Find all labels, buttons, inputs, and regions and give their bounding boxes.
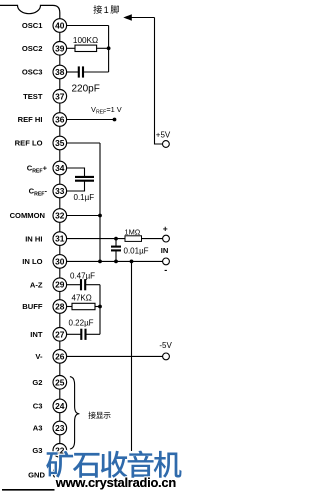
- capacitor Cint 0.22µF: [67, 329, 100, 340]
- svg-text:OSC3: OSC3: [22, 68, 43, 77]
- svg-text:47KΩ: 47KΩ: [72, 294, 92, 303]
- svg-text:0.47µF: 0.47µF: [70, 272, 95, 281]
- IN- terminal: [163, 258, 170, 265]
- svg-text:IN HI: IN HI: [25, 234, 42, 243]
- svg-text:35: 35: [55, 138, 65, 148]
- svg-text:G2: G2: [32, 378, 42, 387]
- IN+ terminal: [163, 235, 170, 242]
- svg-text:REF HI: REF HI: [18, 115, 43, 124]
- capacitor Caz 0.47µF: [67, 279, 100, 290]
- junction dot C2 bottom: [114, 260, 118, 264]
- note 接1脚 (to pin 1): [93, 5, 118, 15]
- svg-text:IN LO: IN LO: [22, 257, 42, 266]
- svg-text:IN: IN: [161, 246, 169, 255]
- svg-text:0.1µF: 0.1µF: [74, 193, 95, 202]
- pin circles 40..21: [53, 19, 67, 457]
- svg-text:34: 34: [55, 163, 65, 173]
- wire IN LO: [67, 260, 163, 262]
- svg-text:29: 29: [55, 280, 65, 290]
- note 接显示 (to display): [88, 412, 110, 419]
- svg-text:1: 1: [104, 5, 109, 15]
- wire REF HI to Vref node: [67, 119, 115, 121]
- svg-text:25: 25: [55, 377, 65, 387]
- svg-text:220pF: 220pF: [72, 84, 100, 95]
- ground return wire IN LO to GND pin: [131, 261, 133, 451]
- wire pin40 OSC1 to oscillator bus: [67, 25, 109, 27]
- svg-text:A3: A3: [33, 424, 43, 433]
- svg-text:26: 26: [55, 351, 65, 361]
- svg-text:33: 33: [55, 186, 65, 196]
- capacitor C1 220pF: [67, 66, 109, 77]
- +5V terminal: [163, 141, 170, 148]
- resistor R3 47KΩ: [67, 303, 100, 309]
- svg-text:0.22µF: 0.22µF: [69, 318, 94, 327]
- junction dot ground line/IN LO: [130, 260, 134, 264]
- svg-text:G3: G3: [32, 446, 42, 455]
- svg-text:0.01µF: 0.01µF: [124, 246, 149, 255]
- wire V- to -5V: [67, 355, 163, 357]
- svg-text:1MΩ: 1MΩ: [125, 228, 141, 237]
- svg-text:23: 23: [55, 423, 65, 433]
- svg-text:36: 36: [55, 115, 65, 125]
- junction dot COMMON/bus: [98, 214, 102, 218]
- wire REF LO: [67, 142, 100, 144]
- svg-text:OSC2: OSC2: [22, 44, 43, 53]
- resistor R2 1MΩ: [125, 236, 142, 242]
- svg-text:27: 27: [55, 329, 65, 339]
- IC body top edge with pin-1 notch: [0, 5, 60, 18]
- svg-text:BUFF: BUFF: [22, 302, 43, 311]
- svg-text:TEST: TEST: [23, 92, 43, 101]
- svg-text:GND: GND: [28, 471, 45, 480]
- svg-text:REF LO: REF LO: [15, 139, 43, 148]
- svg-text:OSC1: OSC1: [22, 21, 43, 30]
- svg-text:31: 31: [55, 234, 65, 244]
- svg-text:COMMON: COMMON: [10, 211, 45, 220]
- svg-text:-5V: -5V: [159, 341, 172, 350]
- watermark underline: [2, 489, 55, 491]
- svg-text:28: 28: [55, 302, 65, 312]
- svg-text:37: 37: [55, 91, 65, 101]
- wire COMMON: [67, 215, 100, 217]
- svg-text:V-: V-: [35, 352, 43, 361]
- svg-text:38: 38: [55, 67, 65, 77]
- svg-text:39: 39: [55, 43, 65, 53]
- wire 1MΩ to IN+ terminal: [142, 238, 163, 240]
- svg-text:-: -: [164, 265, 167, 275]
- capacitor Cref 0.1µF leads: [67, 168, 85, 176]
- pin 21 circle left arc (rest hidden by watermark): [53, 467, 56, 477]
- svg-text:INT: INT: [30, 330, 43, 339]
- svg-text:30: 30: [55, 256, 65, 266]
- IC pin chain connecting segments: [59, 32, 61, 443]
- resistor R1 100KΩ: [67, 45, 109, 51]
- capacitor C2 0.01µF: [111, 239, 121, 262]
- +5V supply wire: [155, 18, 163, 145]
- watermark text 矿石收音机: [46, 451, 181, 478]
- svg-text:www.crystalradio.cn: www.crystalradio.cn: [55, 475, 177, 490]
- svg-text:C3: C3: [33, 402, 43, 411]
- display pins brace: [70, 377, 80, 449]
- capacitor Cref 0.1µF plates: [75, 176, 94, 178]
- svg-text:A-Z: A-Z: [30, 280, 43, 289]
- svg-text:40: 40: [55, 21, 65, 31]
- svg-text:+: +: [163, 224, 168, 234]
- svg-text:+5V: +5V: [156, 131, 171, 140]
- -5V terminal: [163, 353, 170, 360]
- junction dot R3/bus: [98, 305, 102, 309]
- junction dot C2 top: [114, 237, 118, 241]
- integrator node bus wire: [99, 285, 101, 335]
- svg-text:32: 32: [55, 211, 65, 221]
- junction dot R1/bus: [107, 46, 111, 50]
- oscillator bus wire: [108, 26, 110, 73]
- svg-text:100KΩ: 100KΩ: [73, 36, 98, 45]
- svg-text:24: 24: [55, 401, 65, 411]
- arrow to pin 1: [123, 14, 154, 21]
- pin numbers: [55, 21, 65, 456]
- wire IN HI: [67, 238, 125, 240]
- svg-text:VREF=1 V: VREF=1 V: [91, 105, 122, 115]
- node Vref dot: [113, 118, 117, 122]
- junction dot bus/IN LO: [98, 260, 102, 264]
- analog common bus wire: [99, 143, 101, 261]
- pin name labels: [10, 21, 48, 479]
